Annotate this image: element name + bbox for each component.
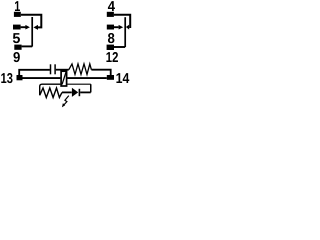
- resistor R2 (LED series): [40, 88, 62, 98]
- wire pin1 to contact: [21, 15, 42, 28]
- terminal pad 8: [107, 25, 114, 30]
- pin label 13: [1, 73, 12, 83]
- terminal pad 13: [17, 75, 23, 80]
- contact bar left pole: [31, 17, 33, 47]
- contact bar right pole: [124, 17, 126, 47]
- wire pad9 to bar: [22, 45, 33, 47]
- LED flash arrowhead: [62, 103, 65, 107]
- pin label 9: [13, 52, 19, 62]
- terminal pad 5: [13, 25, 21, 30]
- pin label 5: [13, 33, 20, 43]
- wire pad13 up to RC branch: [19, 70, 50, 75]
- wire resistor to pad14: [91, 70, 110, 76]
- wire LED branch left: [40, 84, 61, 95]
- terminal pad 4: [107, 12, 114, 17]
- wire pin4 to contact: [114, 15, 130, 27]
- LED flash arrow: [64, 96, 69, 105]
- pin label 4: [108, 1, 115, 11]
- terminal pad 9: [14, 45, 21, 50]
- terminal pad 1: [14, 12, 21, 17]
- wire LED to return: [80, 91, 91, 93]
- wire pad12 to bar: [114, 46, 125, 48]
- terminal pad 14: [107, 75, 114, 80]
- coil box (with polarity slash): [61, 71, 67, 86]
- pin label 12: [106, 52, 118, 62]
- LED D1 triangle: [72, 88, 78, 97]
- pin label 14: [116, 73, 129, 83]
- capacitor C left plate: [50, 64, 52, 74]
- wire resistor to LED: [62, 91, 72, 93]
- resistor R1 (RC snubber): [69, 64, 92, 75]
- arrowhead pin1 (points left): [33, 25, 38, 30]
- wire return up: [90, 84, 92, 92]
- wire pad13 to coil: [23, 77, 61, 79]
- arrowhead pin8 (points right): [119, 25, 124, 30]
- pin label 1: [15, 1, 20, 11]
- terminal pad 12: [107, 45, 114, 50]
- coil slash: [62, 71, 66, 84]
- capacitor C right plate: [54, 64, 56, 74]
- wire coil to pad14: [67, 77, 106, 79]
- wire cap to resistor: [56, 69, 69, 71]
- movable contact arm pin5: [21, 26, 26, 28]
- wire return to coil: [67, 83, 90, 85]
- LED D1 cathode bar: [78, 89, 80, 96]
- arrowhead pin5 (points right): [25, 25, 30, 30]
- pin label 8: [108, 33, 114, 43]
- arrowhead pin4 (points left): [126, 25, 129, 30]
- movable contact arm pin8: [114, 26, 119, 28]
